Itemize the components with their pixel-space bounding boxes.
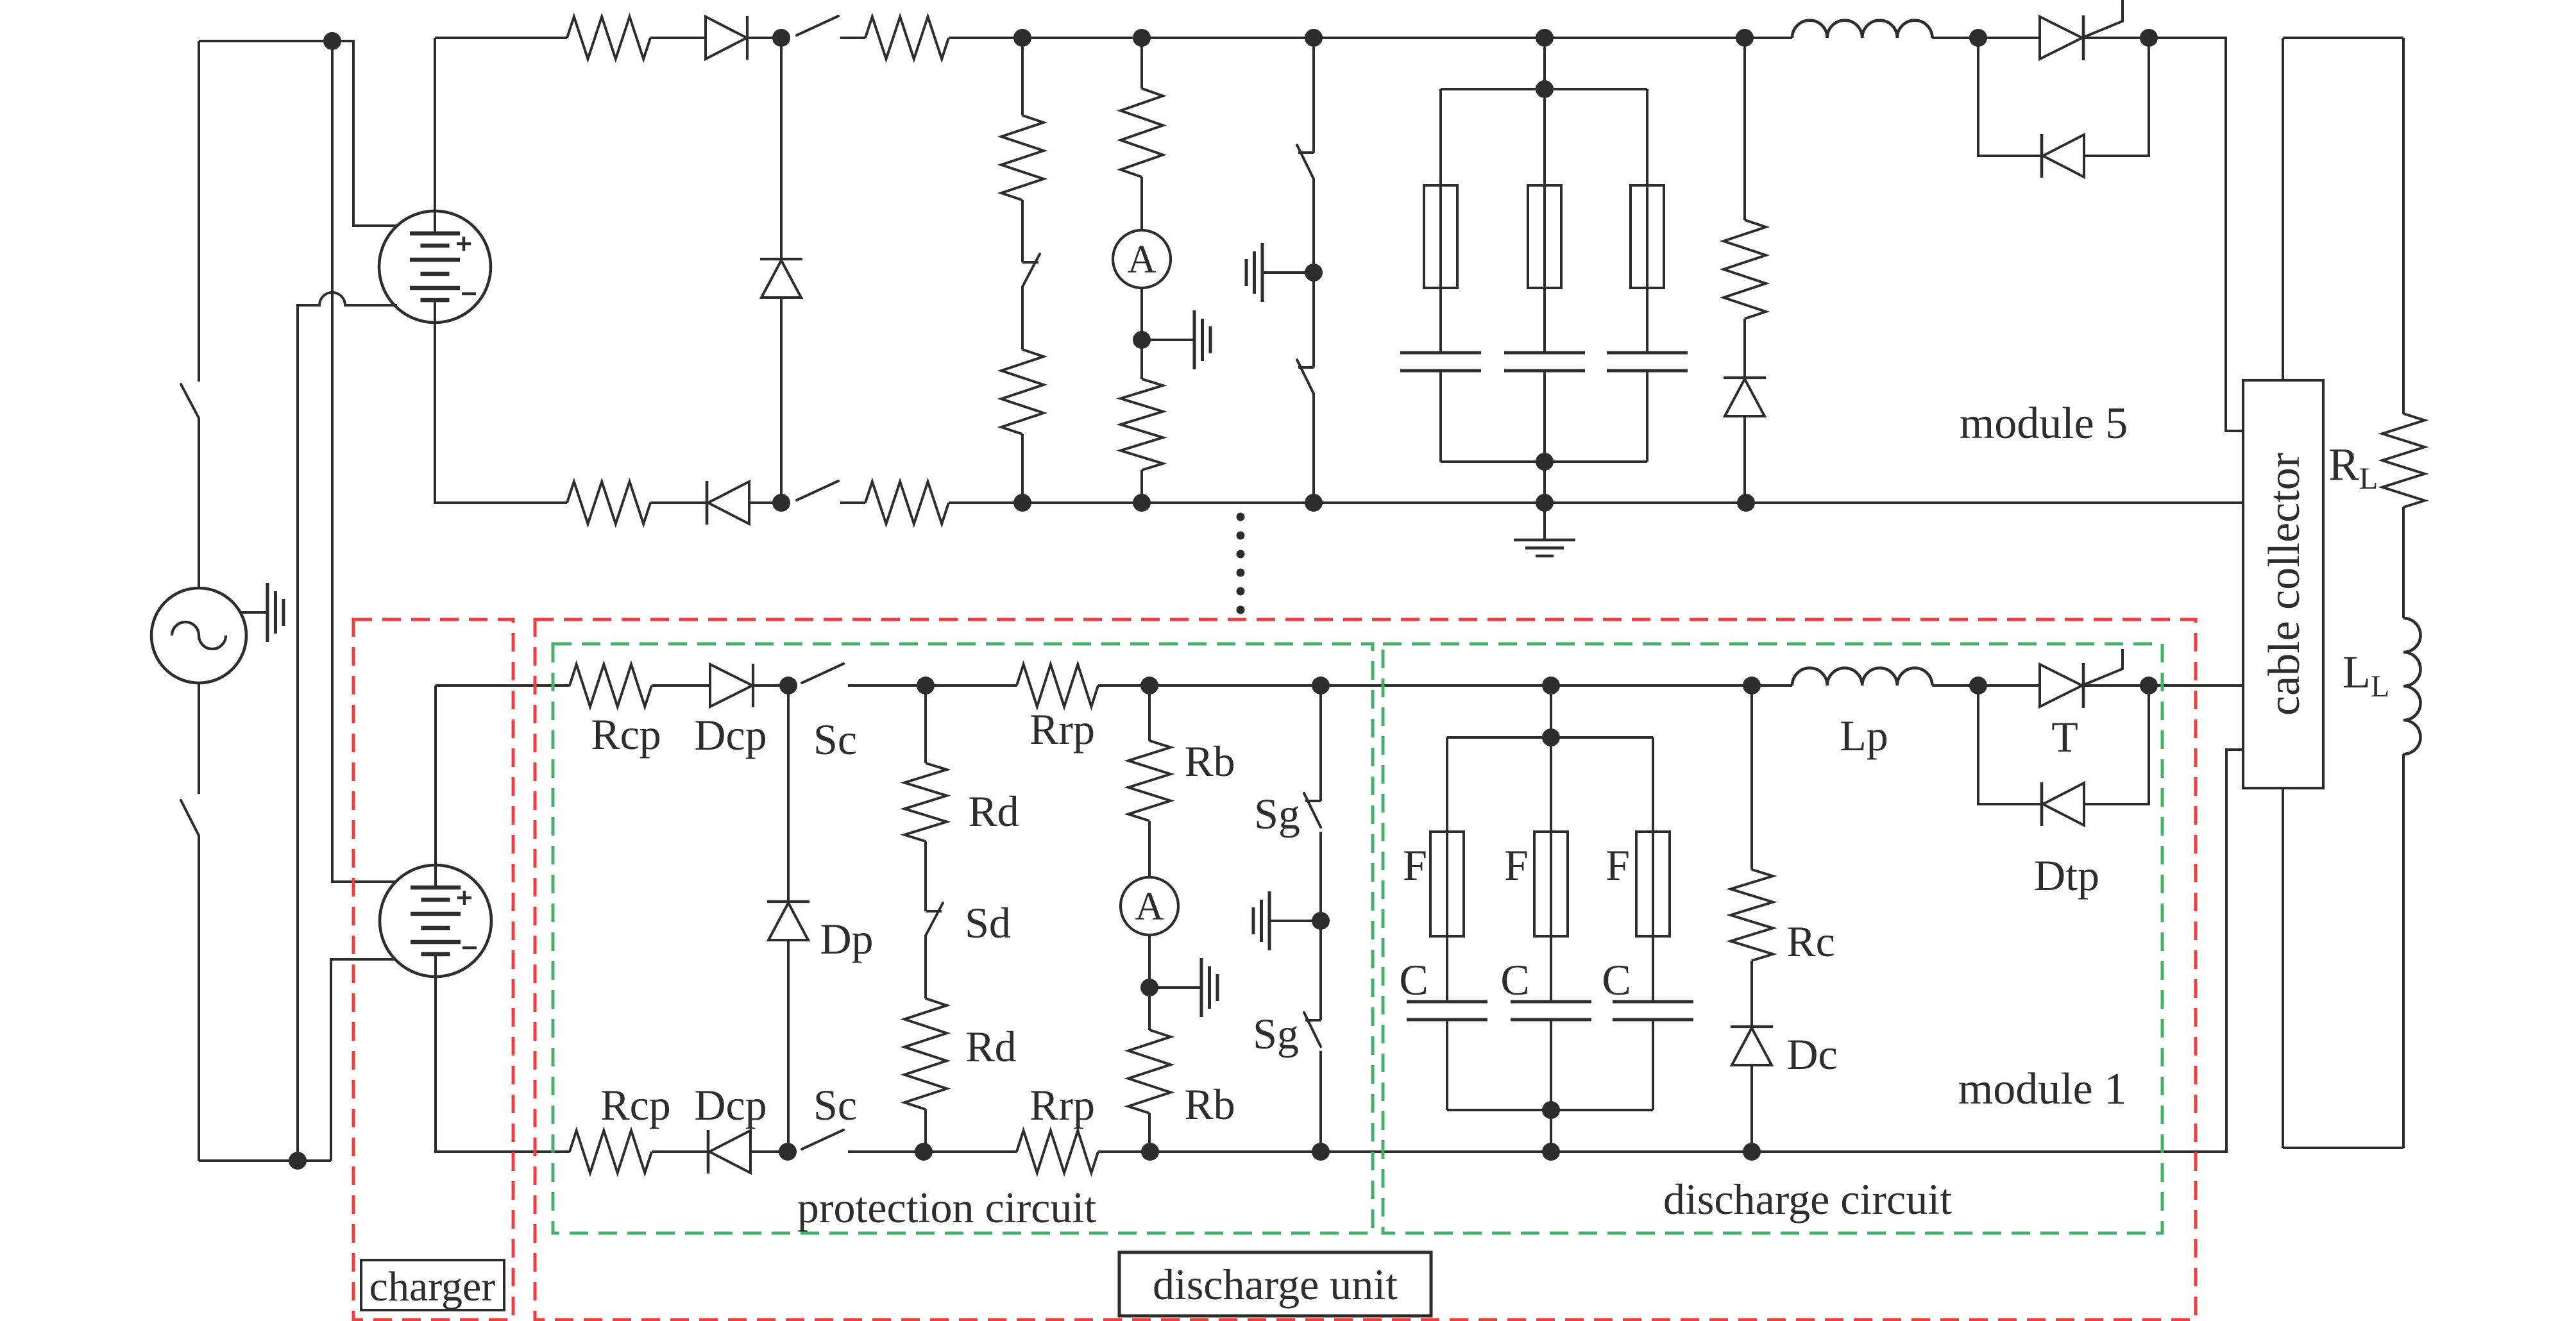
- node ellipsis module repetition: [1237, 513, 1245, 614]
- wire: [1750, 1065, 1753, 1152]
- wire module-1 top rail start: [436, 684, 570, 687]
- wire: [1319, 832, 1322, 921]
- node: [1305, 264, 1323, 282]
- wire: [1439, 371, 1442, 462]
- wire: [1142, 501, 1314, 504]
- label protection circuit: [797, 1183, 1096, 1232]
- label discharge circuit: [1663, 1175, 1952, 1224]
- diode Dc (module 1): [1731, 1027, 1773, 1065]
- ground (module 1 ammeter): [1201, 958, 1217, 1017]
- switch Sg (module 1 lower): [1304, 1013, 1321, 1047]
- resistor Rrp (module 5 bottom): [865, 482, 949, 524]
- resistor Rrp (module 1 top): [1017, 664, 1098, 707]
- wire: [1543, 371, 1546, 462]
- node: [1542, 1143, 1560, 1161]
- wire: [949, 37, 1022, 39]
- label Sc: [813, 1081, 857, 1129]
- label C: [1602, 955, 1631, 1004]
- wire: [2083, 37, 2149, 39]
- wire: [1321, 1150, 1551, 1153]
- svg-text:Sd: Sd: [965, 898, 1011, 947]
- node: [1140, 979, 1158, 997]
- label module 5: [1960, 399, 2128, 448]
- node: [1140, 677, 1158, 694]
- label Rb: [1184, 737, 1235, 786]
- wire branch 2: [1543, 89, 1546, 353]
- wire: [1743, 319, 1746, 378]
- node bottom return junction: [289, 1152, 307, 1170]
- box charger (red dashed): [353, 619, 513, 1320]
- svg-text:discharge circuit: discharge circuit: [1663, 1175, 1952, 1224]
- svg-text:Rcp: Rcp: [591, 710, 661, 759]
- wire ground stub: [1262, 271, 1314, 274]
- node: [1133, 494, 1151, 512]
- wire Sg column upper (module 5): [1312, 38, 1315, 153]
- svg-text:A: A: [1135, 885, 1164, 929]
- svg-text:module 5: module 5: [1960, 399, 2128, 448]
- node: [2140, 29, 2158, 47]
- label LL: [2343, 646, 2389, 703]
- svg-text:Dtp: Dtp: [2034, 851, 2099, 900]
- wire: [1022, 501, 1142, 504]
- wire: [1098, 1150, 1150, 1153]
- wire module-5 top rail start: [435, 37, 567, 39]
- svg-text:F: F: [1606, 841, 1630, 889]
- wire: [1312, 394, 1315, 503]
- wire feed to module-5 charger battery top-left: [332, 41, 397, 226]
- wire: [1750, 961, 1753, 1027]
- wire: [924, 1150, 1017, 1153]
- switch Sg (module 5 lower): [1297, 360, 1314, 394]
- wire: [650, 501, 707, 504]
- label Rb: [1184, 1080, 1235, 1129]
- fuse F1 (module 1): [1430, 832, 1464, 936]
- wire module-1 bottom rail to cable collector: [1752, 750, 2243, 1152]
- svg-text:charger: charger: [369, 1263, 496, 1310]
- node: [1133, 331, 1151, 349]
- diode Dp (module 1): [767, 686, 809, 1152]
- wire: [1140, 177, 1143, 230]
- wire: [1550, 1110, 1552, 1152]
- wire left vertical lower: [198, 836, 200, 1161]
- svg-text:Lp: Lp: [1840, 711, 1888, 760]
- label C: [1399, 955, 1428, 1004]
- wire: [1978, 684, 2040, 687]
- capacitor C1 (module 1): [1407, 1002, 1487, 1020]
- fuse F1 (module 5): [1424, 185, 1457, 288]
- node: [1013, 494, 1031, 512]
- wire: [1140, 288, 1143, 340]
- label Rd: [968, 787, 1019, 836]
- capacitor C2 (module 5): [1504, 353, 1585, 371]
- node: [1542, 728, 1560, 746]
- wire module-5 battery negative return: [298, 292, 397, 1161]
- wire: [848, 684, 926, 687]
- switch Sd (module 5): [1022, 254, 1040, 287]
- node: [917, 677, 935, 694]
- wire: [1021, 200, 1024, 262]
- node: [779, 677, 797, 694]
- node: [1536, 453, 1554, 471]
- wire: [1652, 1020, 1654, 1110]
- wire capacitor bank bottom bus: [1441, 460, 1647, 463]
- box protection circuit (green dashed): [553, 644, 1373, 1233]
- resistor Rd (module 5 upper): [1001, 38, 1044, 200]
- node: [1133, 29, 1151, 47]
- switch S2 (AC isolator lower): [181, 800, 199, 836]
- wire: [1743, 416, 1746, 503]
- label C: [1500, 955, 1529, 1004]
- fuse F2 (module 5): [1528, 185, 1561, 288]
- wire: [1545, 501, 1746, 504]
- node: [1141, 1143, 1159, 1161]
- svg-text:F: F: [1504, 841, 1529, 889]
- svg-text:T: T: [2051, 712, 2078, 761]
- svg-text:Dcp: Dcp: [694, 711, 767, 759]
- fuse F3 (module 1): [1636, 832, 1670, 936]
- ammeter A (module 1): [1121, 877, 1178, 935]
- capacitor C1 (module 5): [1400, 353, 1481, 371]
- wire: [2282, 38, 2284, 380]
- svg-text:Rc: Rc: [1786, 917, 1835, 966]
- resistor Rrp (module 1 bottom): [1017, 1131, 1098, 1173]
- wire: [2402, 38, 2405, 414]
- wire branch 2: [1550, 737, 1552, 1002]
- AC source G1: [151, 588, 246, 683]
- label Sc: [813, 715, 857, 764]
- wire: [924, 841, 927, 911]
- wire: [924, 1109, 927, 1152]
- switch Sg (module 5 upper): [1297, 145, 1314, 179]
- resistor Rc (module 5): [1724, 38, 1766, 319]
- wire: [749, 501, 781, 504]
- wire: [1932, 37, 1978, 39]
- cable collector box: [2243, 380, 2323, 788]
- wire battery bottom terminal: [435, 300, 567, 503]
- svg-text:C: C: [1500, 955, 1529, 1004]
- label Dc: [1786, 1030, 1837, 1079]
- capacitor C3 (module 5): [1607, 353, 1688, 371]
- node: [1737, 494, 1755, 512]
- label Dtp: [2034, 851, 2099, 900]
- thyristor T (module 1): [2040, 649, 2123, 708]
- wire: [1321, 684, 1551, 687]
- resistor Rb (module 5 lower): [1121, 340, 1163, 470]
- wire: [1312, 179, 1315, 273]
- wire capacitor bank bottom bus: [1447, 1109, 1653, 1111]
- label F: [1504, 841, 1529, 889]
- wire: [840, 501, 865, 504]
- resistor Rrp (module 5 top): [865, 17, 949, 59]
- thyristor T (module 5): [2040, 0, 2123, 60]
- node: [1536, 80, 1554, 98]
- wire: [1314, 37, 1545, 39]
- svg-text:Dc: Dc: [1786, 1030, 1837, 1079]
- switch S1 (AC isolator upper): [181, 384, 199, 418]
- battery module-5 charger: [379, 211, 491, 323]
- diode Dcp (module 5 top): [706, 16, 747, 60]
- wire module-1 battery negative return: [331, 959, 395, 1161]
- wire branch 1: [1439, 89, 1442, 353]
- wire to cable collector (module 1 top): [2149, 684, 2243, 687]
- svg-text:Dp: Dp: [820, 914, 873, 963]
- svg-text:F: F: [1403, 841, 1427, 889]
- label Dcp: [694, 1081, 767, 1129]
- wire: [2083, 684, 2149, 687]
- svg-text:cable collector: cable collector: [2260, 453, 2309, 716]
- ground (module 5 Sg): [1246, 243, 1262, 302]
- resistor Rd (module 1 lower): [904, 998, 947, 1109]
- ground (module 5 ammeter): [1194, 310, 1210, 369]
- wire left vertical upper: [198, 41, 200, 382]
- node top-left junction: [323, 32, 341, 50]
- wire: [1551, 1150, 1752, 1153]
- svg-text:Rd: Rd: [965, 1022, 1016, 1071]
- inductor Lp (module 1): [1792, 668, 1932, 686]
- wire: [1148, 935, 1151, 988]
- svg-text:Sg: Sg: [1253, 1009, 1299, 1058]
- wire ground stub: [1149, 986, 1201, 989]
- node: [1536, 29, 1554, 47]
- box discharge unit (red dashed): [535, 619, 2196, 1320]
- resistor Rb (module 1 lower): [1128, 988, 1171, 1113]
- wire: [1140, 470, 1143, 503]
- svg-text:protection circuit: protection circuit: [797, 1183, 1096, 1232]
- switch Sc (module 5 top): [797, 16, 838, 35]
- resistor Rb (module 5 upper): [1121, 38, 1163, 177]
- resistor Rcp (module 5 top): [567, 17, 650, 59]
- label Dp: [820, 914, 873, 963]
- wire: [750, 1150, 788, 1153]
- diode Dtp (module 5) bypass loop: [1978, 38, 2149, 178]
- ammeter A (module 5): [1113, 230, 1171, 288]
- resistor Rcp (module 1 bottom): [570, 1131, 652, 1173]
- wire branch 1: [1446, 737, 1448, 1002]
- wire: [1446, 1020, 1448, 1110]
- wire: [1148, 821, 1151, 877]
- ground earth (module 5 capacitor bank): [1514, 540, 1575, 556]
- wire: [2402, 507, 2405, 618]
- wire: [1312, 273, 1315, 367]
- wire Sg column upper (module 1): [1319, 686, 1322, 801]
- diode Dp (module 5): [760, 38, 802, 503]
- wire ground stub: [1142, 339, 1194, 341]
- wire top-left horizontal: [199, 40, 332, 42]
- wire: [1319, 921, 1322, 1020]
- resistor Rb (module 1 upper): [1128, 686, 1171, 821]
- diode Dtp (module 1) bypass loop: [1978, 686, 2149, 826]
- label Dcp: [694, 711, 767, 759]
- node: [1736, 29, 1754, 47]
- wire: [840, 37, 865, 39]
- wire long vertical to module-1 battery: [332, 41, 396, 882]
- node: [915, 1143, 933, 1161]
- svg-text:Rrp: Rrp: [1030, 705, 1095, 753]
- wire: [1022, 37, 1142, 39]
- node: [1312, 912, 1330, 930]
- switch Sg (module 1 upper): [1304, 793, 1321, 827]
- wire: [650, 37, 706, 39]
- wire: [1545, 37, 1745, 39]
- label Rcp: [600, 1081, 671, 1129]
- wire: [1978, 37, 2040, 39]
- wire: [652, 684, 710, 687]
- wire: [1550, 1020, 1552, 1110]
- label Rcp: [591, 710, 661, 759]
- wire: [1148, 1113, 1151, 1152]
- svg-text:Rb: Rb: [1184, 1080, 1235, 1129]
- switch Sc (module 1 bottom): [802, 1130, 843, 1149]
- node: [1969, 677, 1987, 694]
- wire: [926, 684, 1017, 687]
- wire: [754, 684, 788, 687]
- svg-text:A: A: [1128, 238, 1157, 282]
- wire below AC source: [198, 683, 200, 794]
- node: [1305, 494, 1323, 512]
- svg-text:Dcp: Dcp: [694, 1081, 767, 1129]
- wire to cable collector (module 5 top): [2149, 38, 2243, 431]
- wire capacitor bank feed (module 1): [1550, 686, 1552, 737]
- label RL: [2328, 439, 2378, 496]
- node: [1743, 677, 1761, 694]
- wire capacitor bank feed (module 5): [1543, 38, 1546, 89]
- label Rrp: [1030, 1081, 1095, 1129]
- resistor Rcp (module 1 top): [570, 664, 652, 707]
- wire capacitor bank top bus: [1441, 88, 1647, 90]
- wire: [652, 1150, 708, 1153]
- wire: [1149, 684, 1321, 687]
- wire branch 3: [1646, 89, 1648, 353]
- wire load loop bottom: [2283, 1147, 2403, 1149]
- inductor LL: [2403, 618, 2421, 754]
- ground (module 1 Sg): [1253, 891, 1269, 950]
- label Rrp: [1030, 705, 1095, 753]
- svg-text:Sc: Sc: [813, 1081, 857, 1129]
- svg-text:module 1: module 1: [1958, 1064, 2126, 1114]
- wire: [1319, 1051, 1322, 1152]
- svg-text:Rd: Rd: [968, 787, 1019, 836]
- node: [1969, 29, 1987, 47]
- wire: [1142, 37, 1314, 39]
- label Rd: [965, 1022, 1016, 1071]
- diode Dcp (module 5 bottom): [707, 481, 749, 525]
- resistor Rc (module 1): [1731, 686, 1773, 961]
- wire: [1314, 501, 1545, 504]
- label Lp: [1840, 711, 1888, 760]
- label F: [1403, 841, 1427, 889]
- box discharge circuit (green dashed): [1383, 644, 2162, 1233]
- ground AC source: [267, 583, 284, 642]
- inductor Lp (module 5): [1792, 21, 1932, 38]
- svg-text:C: C: [1399, 955, 1428, 1004]
- wire ground stub: [1269, 920, 1321, 922]
- label T: [2051, 712, 2078, 761]
- resistor Rd (module 1 upper): [904, 686, 947, 841]
- node: [1542, 1101, 1560, 1119]
- switch Sd (module 1): [926, 903, 943, 936]
- fuse F3 (module 5): [1631, 185, 1664, 288]
- wire bottom return bus: [199, 1159, 331, 1162]
- label module 1: [1958, 1064, 2126, 1114]
- wire: [2282, 788, 2284, 1148]
- wire: [1543, 462, 1546, 540]
- node: [1013, 29, 1031, 47]
- switch Sc (module 1 top): [802, 664, 843, 683]
- wire battery bottom terminal: [436, 954, 570, 1152]
- wire: [1646, 371, 1648, 462]
- fuse F2 (module 1): [1534, 832, 1568, 936]
- svg-text:Rcp: Rcp: [600, 1081, 671, 1129]
- svg-text:discharge unit: discharge unit: [1153, 1260, 1398, 1309]
- wire to AC source: [198, 418, 200, 588]
- wire: [1021, 287, 1024, 349]
- resistor Rd (module 5 lower): [1001, 349, 1044, 434]
- wire AC source to ground stub: [241, 611, 267, 614]
- node: [1743, 1143, 1761, 1161]
- wire battery top terminal: [434, 38, 436, 233]
- capacitor C3 (module 1): [1613, 1002, 1693, 1020]
- label F: [1606, 841, 1630, 889]
- node: [1536, 494, 1554, 512]
- svg-text:Rrp: Rrp: [1030, 1081, 1095, 1129]
- node: [1312, 1143, 1330, 1161]
- wire battery top terminal: [434, 686, 437, 888]
- wire: [2402, 754, 2405, 1148]
- svg-text:Sg: Sg: [1254, 789, 1300, 838]
- node: [779, 1143, 797, 1161]
- diode Dcp (module 1 bottom): [708, 1130, 750, 1174]
- label Rc: [1786, 917, 1835, 966]
- wire load loop top: [2283, 37, 2403, 39]
- resistor RL: [2382, 414, 2425, 507]
- svg-text:Sc: Sc: [813, 715, 857, 764]
- label Sd: [965, 898, 1011, 947]
- node: [1312, 677, 1330, 694]
- wire: [1932, 684, 1978, 687]
- label Sg: [1254, 789, 1300, 838]
- wire: [1021, 434, 1024, 503]
- wire: [1745, 37, 1792, 39]
- label Sg: [1253, 1009, 1299, 1058]
- wire: [1551, 684, 1752, 687]
- battery module-1 charger: [380, 865, 491, 977]
- node: [772, 29, 790, 47]
- svg-text:C: C: [1602, 955, 1631, 1004]
- wire branch 3: [1652, 737, 1654, 1002]
- wire: [748, 37, 781, 39]
- node: [772, 494, 790, 512]
- node: [2140, 677, 2158, 694]
- wire: [1752, 684, 1792, 687]
- wire module-5 bottom rail to cable collector: [1746, 501, 2243, 504]
- wire module-5 bottom rail: [566, 501, 568, 504]
- diode Dcp (module 1 top): [710, 664, 753, 707]
- switch Sc (module 5 bottom): [797, 481, 838, 500]
- wire: [924, 936, 927, 998]
- node: [1305, 29, 1323, 47]
- svg-text:Rb: Rb: [1184, 737, 1235, 786]
- resistor Rcp (module 5 bottom): [567, 482, 650, 524]
- node: [1542, 677, 1560, 694]
- wire: [949, 501, 1022, 504]
- wire: [1098, 684, 1149, 687]
- label discharge unit: [1119, 1252, 1431, 1316]
- wire: [1150, 1150, 1321, 1153]
- wire capacitor bank top bus: [1447, 736, 1653, 739]
- label charger: [361, 1260, 504, 1310]
- wire: [848, 1150, 924, 1153]
- diode Dc (module 5): [1724, 378, 1766, 416]
